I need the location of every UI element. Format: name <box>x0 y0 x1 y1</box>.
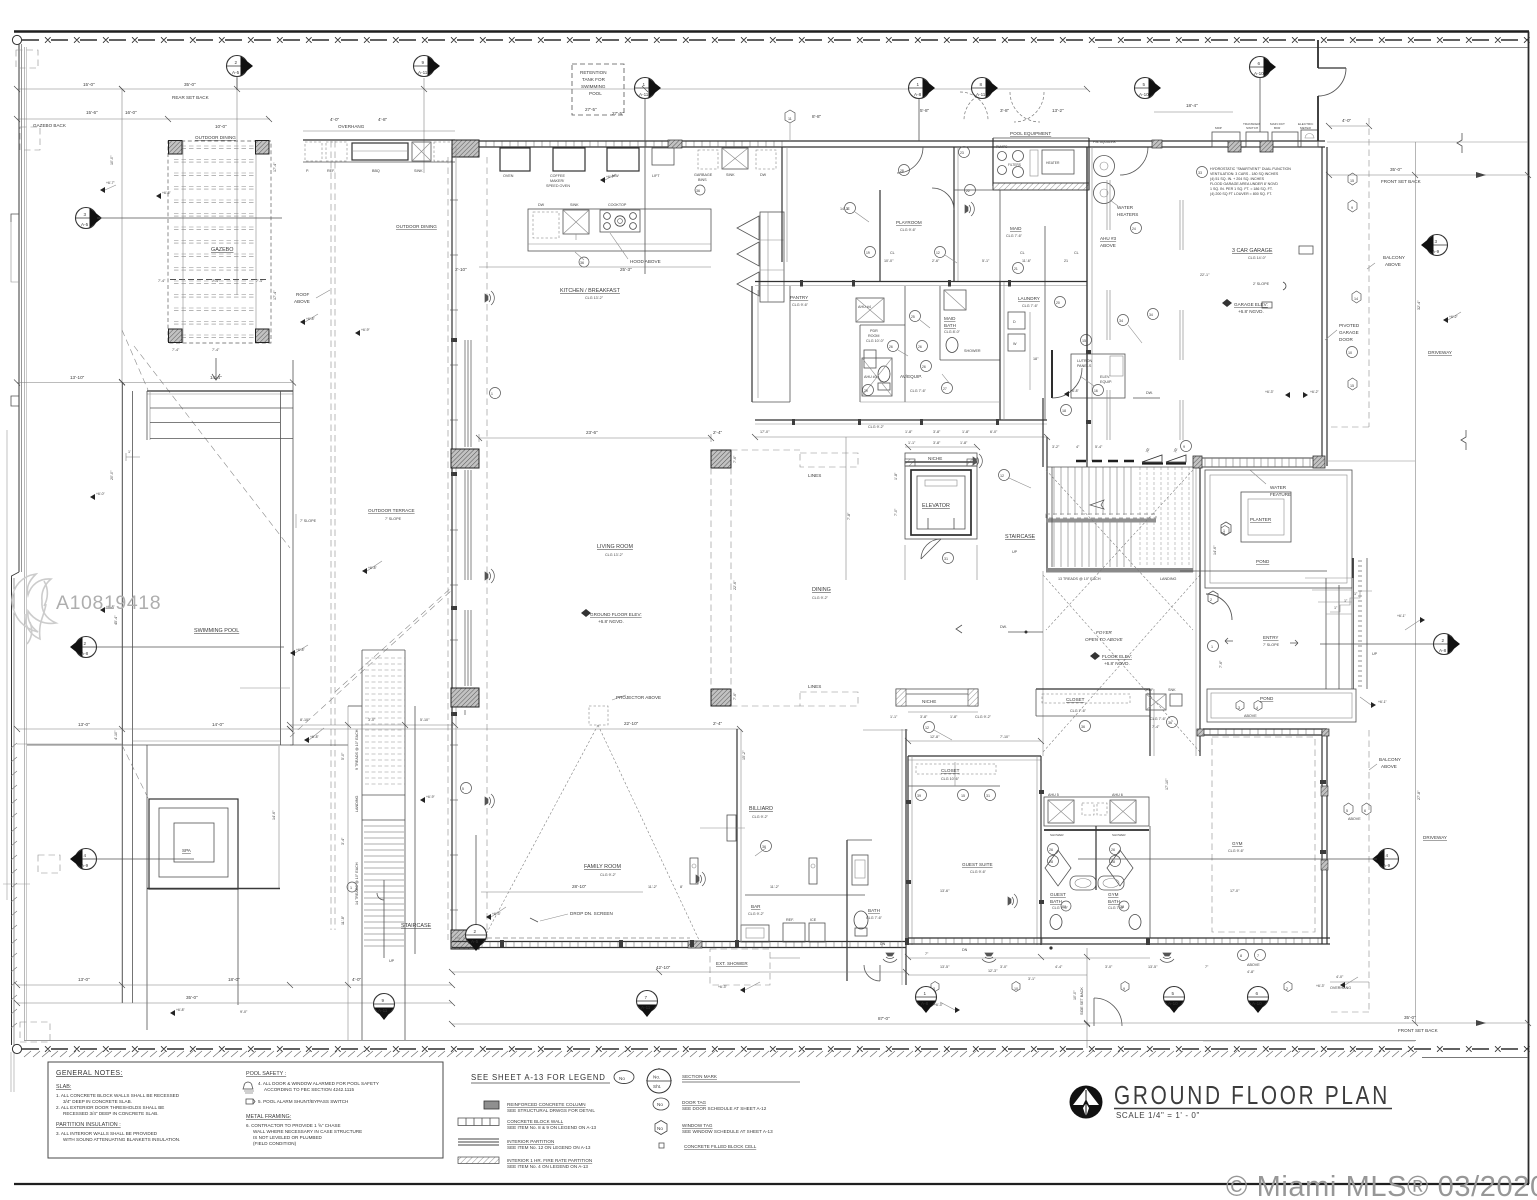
svg-text:13'-5": 13'-5" <box>940 965 950 969</box>
balcony dashed top <box>1368 118 1370 427</box>
svg-text:CLG 13'-2": CLG 13'-2" <box>605 553 624 557</box>
maid bath <box>939 286 941 360</box>
svg-text:ABOVE: ABOVE <box>1247 963 1260 967</box>
svg-text:ABOVE: ABOVE <box>1381 764 1397 769</box>
svg-text:10: 10 <box>1348 351 1352 355</box>
svg-text:ELEV.: ELEV. <box>1100 375 1110 379</box>
door arcs top <box>897 147 923 173</box>
gazebo slats <box>174 146 256 338</box>
svg-text:SEE SHEET A-13 FOR LEGEND: SEE SHEET A-13 FOR LEGEND <box>471 1073 606 1082</box>
svg-text:16'-0": 16'-0" <box>125 110 137 115</box>
hatching under bottom property line <box>24 1051 1417 1057</box>
svg-text:PARTITION INSULATION :: PARTITION INSULATION : <box>56 1122 121 1128</box>
svg-text:35'-0": 35'-0" <box>186 995 198 1000</box>
svg-text:2'-6": 2'-6" <box>932 259 940 263</box>
kitchen island <box>528 209 711 251</box>
svg-text:HYDROSTATIC "SMARTVENT" DUAL F: HYDROSTATIC "SMARTVENT" DUAL FUNCTION <box>1210 167 1291 171</box>
drop down screen <box>540 914 568 921</box>
svg-text:45'-4": 45'-4" <box>114 615 118 625</box>
svg-text:+6'-8": +6'-8" <box>368 566 378 570</box>
svg-text:GROUND FLOOR PLAN: GROUND FLOOR PLAN <box>1114 1080 1390 1110</box>
svg-text:2: 2 <box>1286 987 1288 991</box>
svg-text:28: 28 <box>900 169 904 173</box>
svg-text:2: 2 <box>235 60 238 65</box>
svg-text:ABOVE: ABOVE <box>1348 817 1361 821</box>
svg-text:42'-10": 42'-10" <box>656 965 671 970</box>
svg-text:REF.: REF. <box>1146 688 1154 692</box>
svg-text:17'-0": 17'-0" <box>760 430 770 434</box>
svg-text:11'-2": 11'-2" <box>770 885 780 889</box>
thin line from garage corner to right border <box>1327 141 1528 143</box>
svg-text:COOKTOP: COOKTOP <box>608 203 627 207</box>
svg-text:3'-0": 3'-0" <box>1105 965 1113 969</box>
laundry <box>999 282 1001 420</box>
svg-text:7: 7 <box>645 995 648 1000</box>
elevator equip room <box>1042 398 1044 420</box>
svg-text:5'-0": 5'-0" <box>341 752 345 760</box>
svg-text:+6'-7": +6'-7" <box>106 181 116 185</box>
mid dim verticals <box>845 437 847 580</box>
svg-text:CLG 9'-6": CLG 9'-6" <box>792 303 809 307</box>
svg-text:7'-4": 7'-4" <box>172 348 180 352</box>
svg-text:7'-4": 7'-4" <box>1152 725 1160 729</box>
svg-text:17'-0": 17'-0" <box>1230 889 1240 893</box>
breakfast bay french doors (triangles) on east <box>737 216 759 240</box>
svg-text:2. ALL EXTERIOR DOOR THRESHOL: 2. ALL EXTERIOR DOOR THRESHOLDS SHALL BE <box>56 1105 164 1110</box>
svg-text:BBQ: BBQ <box>372 169 380 173</box>
svg-text:MAKER/: MAKER/ <box>550 179 565 183</box>
svg-text:COFFEE: COFFEE <box>550 174 565 178</box>
elevation flags (small black kite + text) scattered <box>90 174 1461 1016</box>
svg-text:FRONT SET BACK: FRONT SET BACK <box>1398 1028 1439 1033</box>
ext shower <box>710 949 770 985</box>
svg-text:ENTRY: ENTRY <box>1263 635 1279 640</box>
svg-text:1'-8": 1'-8" <box>894 472 898 480</box>
svg-text:CLG 13'-2": CLG 13'-2" <box>585 296 604 300</box>
svg-text:3/4" DEEP IN CONCRETE SLAB.: 3/4" DEEP IN CONCRETE SLAB. <box>63 1099 132 1104</box>
svg-text:9'-0": 9'-0" <box>240 1010 248 1014</box>
svg-text:OVEN: OVEN <box>503 174 514 178</box>
svg-text:CLG 7'-0": CLG 7'-0" <box>1052 906 1069 910</box>
svg-text:A-5: A-5 <box>232 70 240 75</box>
svg-text:11: 11 <box>788 117 792 121</box>
upper flight dashed treads <box>365 658 405 784</box>
garage east wall <box>1321 147 1323 466</box>
garage north wall <box>1093 140 1325 142</box>
thin line top right <box>1098 47 1528 49</box>
svg-text:A-8: A-8 <box>1439 648 1447 653</box>
svg-text:DRIVEWAY: DRIVEWAY <box>1428 350 1452 355</box>
svg-text:38: 38 <box>1062 905 1066 909</box>
svg-text:GARBAGE: GARBAGE <box>694 173 713 177</box>
svg-text:28: 28 <box>1111 860 1115 864</box>
svg-text:BILLIARD: BILLIARD <box>749 806 773 812</box>
svg-text:PIVOTED: PIVOTED <box>1339 323 1360 328</box>
svg-text:7' SLOPE: 7' SLOPE <box>1263 643 1280 647</box>
svg-text:10'-0": 10'-0" <box>1073 990 1077 1000</box>
svg-text:GYM: GYM <box>1108 892 1119 897</box>
svg-text:16: 16 <box>1094 389 1098 393</box>
svg-text:A-11: A-11 <box>641 1005 651 1010</box>
thin line above bottom property <box>24 1040 1416 1042</box>
pond lower strip <box>1207 689 1356 722</box>
svg-text:+6'-3": +6'-3" <box>934 1003 944 1007</box>
line below water feature to right <box>1322 460 1415 462</box>
garage west wall <box>1086 147 1088 461</box>
svg-text:+6'-2": +6'-2" <box>1310 390 1320 394</box>
svg-text:POND: POND <box>1256 559 1270 564</box>
svg-text:EQUIP.: EQUIP. <box>1100 380 1112 384</box>
deck verticals below pool <box>146 745 148 1030</box>
left jog detail near top <box>11 214 19 222</box>
svg-text:+6'-8": +6'-8" <box>296 648 306 652</box>
svg-text:SNK: SNK <box>1168 688 1176 692</box>
svg-text:7'-6": 7'-6" <box>1219 660 1223 668</box>
svg-text:BALCONY: BALCONY <box>1379 757 1401 762</box>
svg-text:33: 33 <box>1198 171 1202 175</box>
bottom sheet edge <box>14 1183 1529 1185</box>
concrete block cells on wall <box>1228 141 1241 152</box>
svg-text:21: 21 <box>1064 259 1068 263</box>
svg-text:23'-6": 23'-6" <box>586 430 598 435</box>
svg-text:D: D <box>1013 320 1016 324</box>
svg-text:© Miami MLS® 03/2020: © Miami MLS® 03/2020 <box>1226 1171 1537 1200</box>
svg-text:SHOWER: SHOWER <box>1112 833 1126 837</box>
gazebo back dim line <box>17 118 270 120</box>
svg-text:8: 8 <box>980 82 983 87</box>
water feature strip <box>1200 458 1322 467</box>
svg-text:DRIVEWAY: DRIVEWAY <box>1423 835 1447 840</box>
entry side strip <box>1353 558 1355 689</box>
svg-text:11'-2": 11'-2" <box>648 885 658 889</box>
svg-text:CLG 9'-2": CLG 9'-2" <box>748 912 765 916</box>
svg-text:A-11: A-11 <box>418 70 428 75</box>
small slope arrow near gazebo <box>212 358 220 380</box>
billiard room <box>736 729 738 942</box>
door tag <box>653 1098 669 1110</box>
svg-text:CLG 9'-2": CLG 9'-2" <box>975 715 992 719</box>
svg-text:FEATURE: FEATURE <box>1270 492 1291 497</box>
svg-text:7'-6": 7'-6" <box>733 455 737 463</box>
svg-text:AV/EQUIP.: AV/EQUIP. <box>900 374 922 379</box>
foyer X <box>1043 575 1200 752</box>
svg-text:5'-1": 5'-1" <box>982 259 990 263</box>
svg-text:15'-0": 15'-0" <box>83 82 95 87</box>
svg-text:27'-5": 27'-5" <box>612 111 624 116</box>
dining columns + dashes <box>711 450 731 468</box>
svg-text:A-10: A-10 <box>1168 1001 1178 1006</box>
svg-text:+6.8' NGVD.: +6.8' NGVD. <box>1238 309 1264 314</box>
svg-text:3'-8": 3'-8" <box>933 430 941 434</box>
legend item: fire partition <box>458 1157 499 1164</box>
svg-text:WITH SOUND ATTENUATING BLANKET: WITH SOUND ATTENUATING BLANKETS INSULATI… <box>63 1137 180 1142</box>
legend item: reinforced concrete column <box>484 1101 499 1109</box>
svg-text:24: 24 <box>1132 227 1136 231</box>
svg-text:4: 4 <box>84 853 87 858</box>
svg-text:14'-3": 14'-3" <box>840 207 850 211</box>
svg-text:35'-0": 35'-0" <box>184 82 196 87</box>
svg-text:8'-10": 8'-10" <box>300 718 310 722</box>
svg-text:1'-1": 1'-1" <box>908 441 916 445</box>
svg-text:1: 1 <box>491 392 493 396</box>
svg-text:DOOR TAG: DOOR TAG <box>682 1100 707 1105</box>
svg-text:A-11: A-11 <box>639 92 649 97</box>
right sheet edge <box>1528 32 1530 1185</box>
south wall guest wing with windows <box>908 937 1150 939</box>
svg-text:A-10: A-10 <box>1139 92 1149 97</box>
svg-text:11'-6": 11'-6" <box>1022 259 1032 263</box>
svg-text:STAIRCASE: STAIRCASE <box>401 923 432 929</box>
svg-text:9 TREADS @ 10" EACH: 9 TREADS @ 10" EACH <box>355 729 359 770</box>
svg-text:3'-0": 3'-0" <box>368 718 376 722</box>
svg-text:FILTERS: FILTERS <box>1008 163 1021 167</box>
dims around elevator <box>905 446 977 448</box>
guest wing south dims <box>908 957 1150 959</box>
svg-text:DN: DN <box>962 948 968 952</box>
svg-text:SPEED OVEN: SPEED OVEN <box>546 184 570 188</box>
svg-text:GARAGE: GARAGE <box>1339 330 1359 335</box>
svg-text:31: 31 <box>944 557 948 561</box>
svg-text:+6'-9": +6'-9" <box>426 795 436 799</box>
speaker icons <box>485 202 1174 962</box>
svg-text:A-5: A-5 <box>81 222 89 227</box>
hex tag near kitchen top <box>785 110 795 123</box>
svg-text:2'-4": 2'-4" <box>713 721 723 726</box>
svg-text:5: 5 <box>1346 809 1348 813</box>
svg-text:REF.: REF. <box>327 169 335 173</box>
svg-text:GARAGE ELEV:: GARAGE ELEV: <box>1234 302 1268 307</box>
svg-text:2' SLOPE: 2' SLOPE <box>1253 282 1270 286</box>
svg-text:1'-8": 1'-8" <box>960 441 968 445</box>
svg-text:2: 2 <box>474 929 477 934</box>
ahu4 <box>856 298 884 322</box>
block cell <box>659 1143 664 1148</box>
south dim lines <box>452 971 906 973</box>
svg-text:POOL: POOL <box>589 91 602 96</box>
svg-text:13'-0": 13'-0" <box>78 977 90 982</box>
svg-text:ABOVE: ABOVE <box>1100 243 1116 248</box>
step dims with 1" labels <box>1330 591 1372 612</box>
svg-text:26: 26 <box>918 345 922 349</box>
svg-text:9: 9 <box>382 998 385 1003</box>
svg-text:+6'-3": +6'-3" <box>1316 984 1326 988</box>
roof above dashed vertical <box>330 141 332 930</box>
svg-text:A-9: A-9 <box>1383 863 1391 868</box>
svg-text:7'-4": 7'-4" <box>256 279 264 283</box>
stair center rail + up arrow <box>383 880 385 958</box>
side set back <box>1086 948 1088 1048</box>
svg-text:PLANTER: PLANTER <box>1250 517 1272 522</box>
svg-text:MAID: MAID <box>1010 226 1022 231</box>
svg-text:WALL WHERE NECESSARY IN CASE S: WALL WHERE NECESSARY IN CASE STRUCTURE <box>253 1129 362 1134</box>
svg-text:8'-8": 8'-8" <box>812 114 822 119</box>
svg-text:CONCRETE BLOCK WALL: CONCRETE BLOCK WALL <box>507 1119 564 1124</box>
svg-text:CLG 9'-2": CLG 9'-2" <box>752 815 769 819</box>
svg-text:AHU 6: AHU 6 <box>1112 793 1123 797</box>
svg-text:WATER: WATER <box>1270 485 1287 490</box>
svg-text:4'-10": 4'-10" <box>114 730 118 740</box>
svg-text:LANDING: LANDING <box>355 795 359 812</box>
svg-text:4: 4 <box>1386 853 1389 858</box>
svg-text:5. POOL ALARM SHUNT/BYPASS SW: 5. POOL ALARM SHUNT/BYPASS SWITCH <box>258 1099 348 1104</box>
svg-text:1 SQ. IN. PER 1 SQ. FT. = 186: 1 SQ. IN. PER 1 SQ. FT. = 186 SQ. FT. <box>1210 187 1273 191</box>
svg-text:AHU #3: AHU #3 <box>864 375 877 379</box>
svg-text:A-5: A-5 <box>471 939 479 944</box>
svg-text:BAR: BAR <box>751 904 761 909</box>
svg-text:1: 1 <box>1211 645 1213 649</box>
top-right entry door from street <box>1317 40 1319 68</box>
svg-text:+6'-8": +6'-8" <box>310 735 320 739</box>
svg-text:+6'-8": +6'-8" <box>176 1008 186 1012</box>
svg-text:(FIELD CONDITION): (FIELD CONDITION) <box>253 1141 297 1146</box>
spa nested squares <box>149 799 238 889</box>
svg-text:+6'-2": +6'-2" <box>1449 315 1459 319</box>
svg-text:SLAB:: SLAB: <box>56 1084 71 1090</box>
svg-text:No: No <box>619 1076 625 1081</box>
swimming pool: deck strip + basin <box>122 382 124 1003</box>
svg-text:CLG 14'-0": CLG 14'-0" <box>1248 256 1267 260</box>
left low horizontal lines near spa <box>17 743 122 745</box>
svg-text:+6'-8": +6'-8" <box>1070 389 1080 393</box>
general notes box <box>48 1062 443 1158</box>
retention tank dashed box <box>572 64 624 115</box>
glass wall mid columns hatched <box>451 449 479 468</box>
svg-text:BATH: BATH <box>944 323 956 328</box>
svg-text:3'-1": 3'-1" <box>1028 977 1036 981</box>
south wall west wing (family room) <box>452 941 906 943</box>
NW hatched corner column <box>452 140 479 157</box>
svg-text:NICHE: NICHE <box>928 456 942 461</box>
svg-text:36: 36 <box>580 261 584 265</box>
svg-text:7'-10": 7'-10" <box>1000 735 1010 739</box>
svg-text:17'-10": 17'-10" <box>1165 778 1169 790</box>
gym interior dashed <box>1212 737 1315 932</box>
svg-text:RECESSED 3/4" DEEP IN CONCRETE: RECESSED 3/4" DEEP IN CONCRETE SLAB. <box>63 1111 159 1116</box>
svg-text:CLG 10'-6": CLG 10'-6" <box>941 777 960 781</box>
svg-text:W: W <box>1013 342 1017 346</box>
svg-text:SIDE SET BACK: SIDE SET BACK <box>1080 987 1084 1015</box>
svg-text:25'-3": 25'-3" <box>620 267 632 272</box>
svg-text:SWIMMING: SWIMMING <box>581 84 606 89</box>
svg-text:1'-8": 1'-8" <box>950 715 958 719</box>
svg-text:MAID: MAID <box>944 316 956 321</box>
west glass wall with mullions <box>451 147 453 949</box>
kitchen appliance boxes below north wall <box>500 148 530 171</box>
svg-text:13 TREADS @ 10" EACH: 13 TREADS @ 10" EACH <box>1058 577 1101 581</box>
svg-text:FOYER: FOYER <box>1096 630 1113 635</box>
svg-text:A-11: A-11 <box>378 1008 388 1013</box>
svg-text:A-8: A-8 <box>921 1001 929 1006</box>
svg-text:EXT. SHOWER: EXT. SHOWER <box>716 961 748 966</box>
svg-text:17'-4": 17'-4" <box>273 290 277 300</box>
svg-text:26: 26 <box>922 365 926 369</box>
cooktop <box>600 210 640 232</box>
svg-text:7'-6": 7'-6" <box>733 692 737 700</box>
misc circle tags <box>461 147 1159 794</box>
staircase <box>1054 467 1131 567</box>
front setback bottom right <box>1087 1022 1528 1024</box>
svg-text:2'-4": 2'-4" <box>713 430 723 435</box>
svg-text:LUTRON: LUTRON <box>1077 359 1092 363</box>
svg-text:UP: UP <box>389 959 395 963</box>
svg-text:15: 15 <box>1082 339 1086 343</box>
svg-text:26: 26 <box>1049 848 1053 852</box>
svg-text:15: 15 <box>1350 384 1354 388</box>
svg-text:1: 1 <box>917 82 920 87</box>
svg-text:6: 6 <box>1258 61 1261 66</box>
svg-text:OUTDOOR DINING: OUTDOOR DINING <box>195 135 236 140</box>
svg-text:15: 15 <box>1350 179 1354 183</box>
svg-text:CLG 9'-6": CLG 9'-6" <box>900 228 917 232</box>
svg-text:AHU #3: AHU #3 <box>1100 236 1117 241</box>
title block logo <box>1070 1086 1103 1119</box>
svg-text:DINING: DINING <box>812 587 831 593</box>
pool deck dim lines bottom <box>17 728 290 730</box>
pool right edge double line <box>280 391 282 745</box>
dashed diag bottom left <box>122 745 148 798</box>
break marks <box>1457 133 1462 153</box>
sliding door tracks near columns <box>465 340 471 715</box>
svg-text:CLG 9'-2": CLG 9'-2" <box>812 596 829 600</box>
svg-text:ABOVE: ABOVE <box>1385 262 1401 267</box>
svg-text:PANELS: PANELS <box>1077 364 1092 368</box>
svg-text:A-11: A-11 <box>976 92 986 97</box>
svg-text:18'-0": 18'-0" <box>228 977 240 982</box>
elevator niche band <box>905 453 977 466</box>
svg-text:3: 3 <box>1435 239 1438 244</box>
gazebo columns (hatched) <box>169 141 183 155</box>
svg-text:7'-4": 7'-4" <box>212 279 220 283</box>
corridor bottom wall y420 <box>755 419 1047 421</box>
AHU closets pair <box>1040 756 1042 945</box>
svg-text:3'-0": 3'-0" <box>1000 965 1008 969</box>
svg-text:BKR: BKR <box>1274 126 1281 130</box>
dashed stub boxes on left property line <box>16 50 38 68</box>
top sheet edge <box>14 30 1529 32</box>
pool bottom <box>27 744 293 746</box>
svg-text:CLG 8'-0": CLG 8'-0" <box>944 330 961 334</box>
svg-text:A-8: A-8 <box>914 92 922 97</box>
entry tags <box>1208 591 1218 604</box>
svg-text:INTERIOR PARTITION: INTERIOR PARTITION <box>507 1139 554 1144</box>
svg-text:3. ALL INTERIOR WALLS SHALL B: 3. ALL INTERIOR WALLS SHALL BE PROVIDED <box>56 1131 158 1136</box>
svg-text:4'-0": 4'-0" <box>352 977 362 982</box>
svg-text:RETENTION: RETENTION <box>580 70 607 75</box>
svg-text:35'-0": 35'-0" <box>1390 167 1402 172</box>
svg-text:SEE ITEM No. 8 & 9 ON LEGEND: SEE ITEM No. 8 & 9 ON LEGEND ON A-13 <box>507 1125 597 1130</box>
svg-text:REAR SET BACK: REAR SET BACK <box>172 95 210 100</box>
svg-text:3'-8": 3'-8" <box>920 715 928 719</box>
pool top edge <box>147 390 293 392</box>
svg-text:35'-0": 35'-0" <box>1404 1015 1416 1020</box>
svg-text:14'-6": 14'-6" <box>272 810 276 820</box>
svg-text:20: 20 <box>1056 301 1060 305</box>
svg-text:8': 8' <box>680 885 683 889</box>
landing <box>362 794 405 796</box>
svg-text:DW: DW <box>538 203 545 207</box>
top property line (dashed with x) <box>22 39 1528 41</box>
vertical dim thru gazebo center <box>236 78 238 295</box>
planter <box>1241 492 1291 542</box>
svg-text:GUEST: GUEST <box>1050 892 1066 897</box>
svg-text:No: No <box>657 1126 663 1131</box>
svg-text:4'-4": 4'-4" <box>1055 965 1063 969</box>
svg-text:10'-0": 10'-0" <box>215 124 227 129</box>
svg-text:SECTION MARK: SECTION MARK <box>682 1074 718 1079</box>
svg-text:ROOF: ROOF <box>296 292 309 297</box>
svg-text:FLOOR ELEV:: FLOOR ELEV: <box>1102 654 1132 659</box>
svg-text:34: 34 <box>1119 319 1123 323</box>
